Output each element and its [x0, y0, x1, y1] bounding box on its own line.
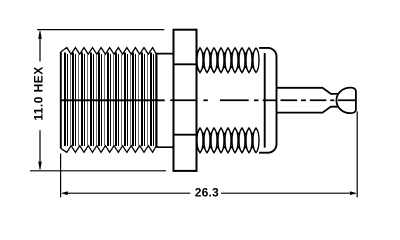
svg-text:26.3: 26.3 [195, 185, 219, 199]
svg-text:11.0 HEX: 11.0 HEX [32, 66, 46, 120]
